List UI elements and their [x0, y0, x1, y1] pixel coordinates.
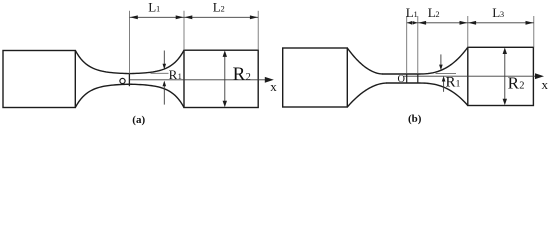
left grip block (b): [283, 48, 348, 107]
R1 ledger line (b): [436, 72, 457, 74]
neck bottom straight edge (b): [387, 82, 419, 84]
L1 left arrowhead (b): [407, 21, 412, 25]
svg-text:(a): (a): [132, 114, 145, 126]
extension line at origin (a): [129, 11, 131, 74]
L1 left arrowhead (a): [130, 15, 138, 19]
svg-text:2: 2: [246, 72, 251, 83]
svg-text:R: R: [508, 74, 520, 93]
R1 upper arrowhead (a): [163, 64, 167, 70]
extension line at origin (b): [406, 16, 408, 74]
neck top straight edge (b): [383, 73, 419, 75]
L2 right arrowhead (a): [250, 15, 258, 19]
x axis (a): [129, 79, 266, 81]
L2 right arrowhead (b): [460, 21, 468, 25]
R1 upper pointer line (a): [163, 51, 165, 66]
dimension line L2 (b): [418, 22, 468, 24]
R1 upper pointer line (b): [440, 54, 442, 66]
dimension line L1 (b): [407, 22, 418, 24]
dimension line L1 (a): [130, 16, 185, 18]
L2 left arrowhead (a): [184, 15, 192, 19]
R1 lower arrowhead (b): [442, 76, 446, 82]
right grip block (a): [184, 50, 258, 107]
svg-text:1: 1: [414, 9, 418, 19]
neck bottom-right curve (a): [130, 84, 185, 107]
svg-text:2: 2: [221, 4, 225, 14]
extension line rect right edge (b): [533, 16, 535, 47]
dimension line L3 (b): [468, 22, 534, 24]
neck top-right curve (a): [130, 50, 185, 73]
R2 dimension arrow (b): [504, 50, 506, 103]
L3 right arrowhead (b): [526, 21, 534, 25]
left grip block (a): [3, 51, 75, 108]
extension line rect left edge (a): [183, 11, 185, 50]
neck top-right flare (b): [418, 47, 468, 74]
x axis (b): [404, 75, 536, 77]
svg-text:x: x: [270, 79, 277, 94]
x axis arrowhead (a): [265, 77, 274, 83]
R2 top arrowhead (a): [223, 50, 227, 57]
svg-text:R: R: [233, 64, 246, 85]
neck top-left taper (b): [347, 48, 383, 74]
R1 ledger line (a): [151, 72, 169, 74]
extension line rect right edge (a): [257, 11, 259, 50]
R1 lower arrowhead (a): [163, 81, 167, 87]
L2 left arrowhead (b): [418, 21, 426, 25]
origin tick through neck (a): [128, 74, 130, 87]
extension line rect left edge (b): [467, 16, 469, 47]
neck top-left curve (a): [75, 50, 129, 73]
L1 right arrowhead (b): [413, 21, 418, 25]
svg-text:3: 3: [500, 9, 504, 19]
origin tick through neck (b): [406, 74, 408, 83]
svg-text:R: R: [446, 75, 456, 91]
R2 dimension arrow (a): [224, 53, 226, 105]
x axis arrowhead (b): [535, 73, 544, 79]
svg-text:(b): (b): [408, 113, 422, 125]
svg-text:1: 1: [178, 71, 182, 81]
neck-end tick through neck (b): [417, 74, 419, 83]
right grip block (b): [468, 47, 534, 105]
L1 right arrowhead (a): [176, 15, 184, 19]
R1 lower pointer line (b): [443, 80, 445, 92]
dimension line L2 (a): [184, 16, 258, 18]
svg-text:1: 1: [456, 80, 461, 90]
origin marker O (a): [120, 78, 125, 83]
R2 bottom arrowhead (a): [223, 101, 227, 108]
R2 bottom arrowhead (b): [503, 99, 507, 106]
R1 lower pointer line (a): [163, 85, 165, 105]
svg-text:R: R: [169, 67, 178, 82]
svg-text:1: 1: [156, 4, 160, 14]
svg-text:2: 2: [435, 9, 439, 19]
svg-text:x: x: [542, 77, 549, 92]
extension line neck end (b): [417, 16, 419, 74]
L3 left arrowhead (b): [468, 21, 476, 25]
R1 upper arrowhead (b): [439, 65, 443, 71]
neck bottom-left taper (b): [347, 83, 387, 107]
svg-text:O: O: [398, 74, 406, 85]
neck bottom-left curve (a): [75, 84, 129, 107]
R2 top arrowhead (b): [503, 48, 507, 55]
neck bottom-right flare (b): [418, 83, 468, 106]
svg-text:2: 2: [519, 81, 524, 92]
